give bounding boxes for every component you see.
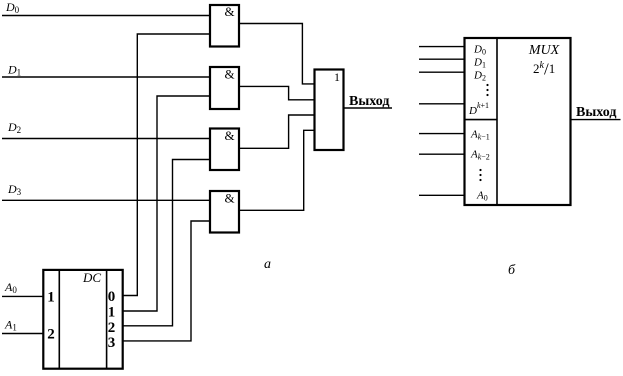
wire A0 to DC input 1 xyxy=(2,295,43,297)
svg-text:&: & xyxy=(224,4,234,19)
decoder DC xyxy=(43,270,122,369)
wire MUX input D2 xyxy=(419,71,465,73)
svg-text:1: 1 xyxy=(334,70,340,84)
AND gate 1 xyxy=(210,4,239,47)
svg-text:&: & xyxy=(224,191,234,206)
wire OR output xyxy=(344,107,393,109)
wire DC out1 to AND2 input 2 xyxy=(123,96,210,311)
svg-text:Выход: Выход xyxy=(349,94,389,109)
wire AND4 output to OR input 4 xyxy=(239,130,315,210)
svg-text:3: 3 xyxy=(108,335,116,351)
wire D3 to AND4 input 1 xyxy=(2,199,210,201)
svg-text:2: 2 xyxy=(47,327,55,343)
multiplexer MUX block xyxy=(465,38,571,205)
wire DC out3 to AND4 input 2 xyxy=(123,221,210,341)
svg-text:0: 0 xyxy=(108,289,116,305)
wire MUX output xyxy=(571,119,621,121)
AND gate 4 xyxy=(210,191,239,233)
wire D0 to AND1 input 1 xyxy=(2,15,210,17)
OR gate xyxy=(315,70,344,151)
svg-text:DC: DC xyxy=(82,270,101,285)
wire AND1 output to OR input 1 xyxy=(239,24,315,84)
svg-text:1: 1 xyxy=(108,304,116,320)
MUX D column ellipsis xyxy=(486,84,488,96)
svg-text:а: а xyxy=(264,257,271,272)
svg-text:&: & xyxy=(224,128,234,143)
wire AND2 output to OR input 2 xyxy=(239,86,315,99)
wire MUX input Dk+1 xyxy=(419,103,465,105)
svg-text:Выход: Выход xyxy=(576,105,616,120)
svg-text:1: 1 xyxy=(47,290,55,306)
MUX A column ellipsis xyxy=(479,169,481,181)
wire MUX input D1 xyxy=(419,58,465,60)
AND gate 2 xyxy=(210,67,239,110)
wire MUX input A0 xyxy=(419,194,465,196)
wire MUX input Ak-2 xyxy=(419,153,465,155)
wire MUX input Ak-1 xyxy=(419,133,465,135)
svg-text:2: 2 xyxy=(108,320,116,336)
wire DC out0 to AND1 input 2 xyxy=(123,34,210,296)
AND gate 3 xyxy=(210,128,239,170)
wire DC out2 to AND3 input 2 xyxy=(123,160,210,326)
svg-text:2k/1: 2k/1 xyxy=(533,60,555,79)
wire D2 to AND3 input 1 xyxy=(2,138,210,140)
svg-text:&: & xyxy=(224,67,234,82)
svg-text:б: б xyxy=(508,263,516,278)
wire D1 to AND2 input 1 xyxy=(2,76,210,78)
wire AND3 output to OR input 3 xyxy=(239,115,315,148)
wire A1 to DC input 2 xyxy=(2,333,43,335)
wire MUX input D0 xyxy=(419,46,465,48)
svg-text:MUX: MUX xyxy=(528,43,560,58)
